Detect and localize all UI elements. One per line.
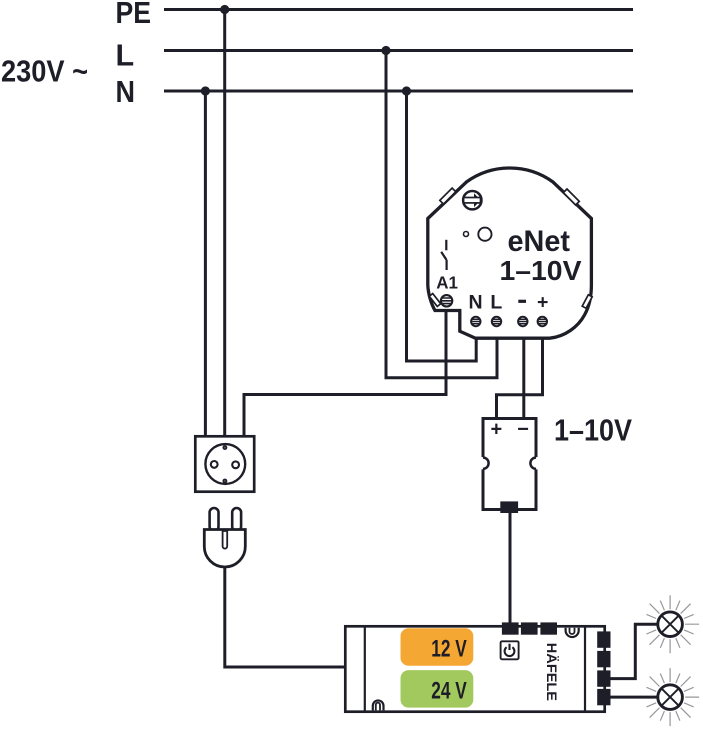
button <box>478 228 491 241</box>
socket hole right <box>232 461 239 468</box>
svg-text:+: + <box>491 418 503 440</box>
svg-text:PE: PE <box>116 0 152 30</box>
divider left <box>364 626 366 712</box>
svg-text:1–10V: 1–10V <box>500 255 582 286</box>
svg-text:12 V: 12 V <box>431 636 467 663</box>
right connector tab 1 <box>597 631 610 647</box>
junction dot L <box>381 46 390 55</box>
terminal N <box>471 317 480 326</box>
plug pin left <box>210 508 219 531</box>
svg-text:A1: A1 <box>436 273 458 293</box>
wire L bus <box>164 49 633 52</box>
wire eNet plus to control unit <box>497 338 543 418</box>
svg-text:−: − <box>517 418 529 440</box>
wire N feed to eNet N terminal <box>407 91 477 361</box>
LED driver G1 <box>345 622 610 712</box>
svg-text:24 V: 24 V <box>431 678 467 705</box>
top connector tab 3 <box>540 622 557 634</box>
svg-text:230V ~: 230V ~ <box>1 54 88 89</box>
mounting slot lower-right <box>582 295 592 309</box>
socket hole left <box>211 461 218 468</box>
svg-text:L: L <box>116 39 135 73</box>
control unit 1-10V converter <box>477 418 543 513</box>
socket X1 <box>195 436 254 491</box>
eNet housing outline <box>428 168 592 338</box>
wire driver to bottom lamp <box>609 696 658 699</box>
wire PE to socket <box>223 10 226 437</box>
keyhole slot top-right <box>566 628 579 637</box>
wire PE bus <box>164 8 633 11</box>
wire control unit to driver <box>509 513 512 624</box>
lamp E1 bulb <box>658 612 683 637</box>
plug pin right <box>232 508 241 531</box>
svg-text:HÄFELE: HÄFELE <box>544 643 560 701</box>
wire N bus <box>164 90 633 93</box>
mounting slot upper-left <box>440 188 456 204</box>
lamp E1 rays <box>647 595 700 653</box>
control unit housing <box>483 419 536 510</box>
lamp E2 bulb <box>658 685 683 710</box>
bottom connector <box>500 501 518 513</box>
divider right <box>584 626 586 712</box>
svg-text:N: N <box>469 291 483 313</box>
svg-text:+: + <box>537 291 548 313</box>
wire A1 switched L to socket <box>244 307 446 436</box>
lamp E2 (bottom) <box>647 668 700 726</box>
keyhole slot bottom-left <box>373 700 384 710</box>
top connector tab 1 <box>502 622 519 634</box>
lamp E1 cross <box>662 616 679 633</box>
junction dot N left <box>201 86 210 95</box>
mounting slot upper-right <box>563 189 579 205</box>
notch left <box>477 457 489 469</box>
label minus terminal <box>518 300 526 303</box>
svg-text:L: L <box>490 291 502 313</box>
top connector tab 2 <box>521 622 538 634</box>
badge 24V <box>401 670 474 708</box>
mounting slot lower-left <box>429 294 440 307</box>
driver enclosure <box>345 626 604 711</box>
svg-text:1–10V: 1–10V <box>554 413 632 448</box>
wire L feed to eNet L terminal <box>386 51 497 378</box>
lamp E2 cross <box>662 689 679 706</box>
socket well <box>205 444 245 484</box>
screw symbol <box>463 191 481 209</box>
wire driver to top lamp <box>609 624 658 678</box>
power button <box>501 641 519 659</box>
junction dot PE <box>220 5 229 14</box>
socket earth contact bottom <box>223 479 228 484</box>
plug body <box>204 530 245 567</box>
terminal A1 <box>441 295 452 306</box>
svg-text:eNet: eNet <box>508 225 571 258</box>
terminal plus <box>538 317 547 326</box>
right connector tab 2 <box>597 651 610 667</box>
socket earth contact top <box>223 445 228 450</box>
LED indicator <box>464 232 469 237</box>
plug earth slot <box>223 531 228 549</box>
terminal minus <box>518 317 527 326</box>
wire N to socket <box>204 91 207 436</box>
svg-text:N: N <box>116 75 136 109</box>
notch right <box>530 457 542 469</box>
badge 12V <box>401 628 474 666</box>
socket frame <box>195 436 254 491</box>
lamp E2 rays <box>647 668 700 726</box>
right connector tab 3 <box>597 670 610 686</box>
wire eNet minus to control unit <box>522 338 525 418</box>
junction dot N right <box>402 86 411 95</box>
switch contact symbol <box>441 240 446 270</box>
wire plug cord to driver <box>225 565 345 667</box>
lamp E1 (top) <box>647 595 700 653</box>
plug P1 <box>204 508 245 567</box>
terminal L <box>492 317 501 326</box>
right connector tab 4 <box>597 689 610 705</box>
eNet actuator U1 body <box>428 168 592 338</box>
